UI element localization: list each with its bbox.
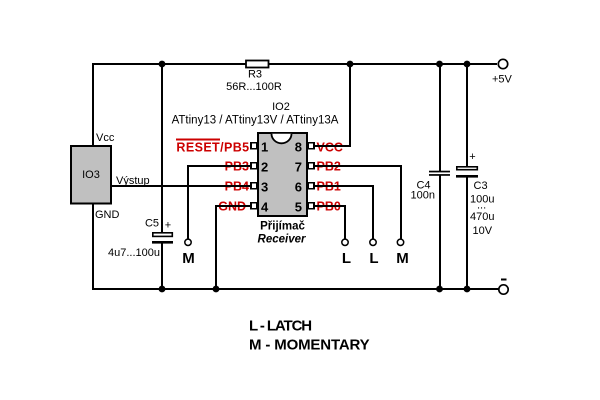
svg-text:5: 5 bbox=[295, 200, 302, 215]
svg-text:4: 4 bbox=[261, 200, 269, 215]
capacitor C5 plates (electrolytic) bbox=[152, 233, 173, 244]
wire: pin 7 PB2 to M button bbox=[315, 166, 402, 239]
svg-text:RESET/PB5: RESET/PB5 bbox=[176, 141, 249, 155]
svg-text:IO2: IO2 bbox=[272, 101, 290, 113]
terminal minus bbox=[499, 279, 508, 295]
svg-text:...: ... bbox=[477, 200, 486, 212]
svg-text:Vcc: Vcc bbox=[96, 132, 115, 144]
svg-text:M: M bbox=[396, 250, 409, 267]
button terminal L (pin5) bbox=[342, 239, 351, 267]
svg-text:8: 8 bbox=[295, 140, 302, 155]
svg-text:Výstup: Výstup bbox=[116, 175, 150, 187]
capacitor C3 plates (electrolytic) bbox=[456, 167, 478, 178]
svg-text:M: M bbox=[182, 250, 195, 267]
svg-text:VCC: VCC bbox=[317, 141, 343, 155]
pin label RESET/PB5 (pin 1) bbox=[176, 140, 250, 155]
wire: M button to pin 2 PB3 bbox=[188, 166, 251, 239]
svg-text:L: L bbox=[342, 250, 351, 267]
IC pin boxes right (pins 8-5) bbox=[308, 143, 314, 209]
wire: C3 branch upper bbox=[466, 63, 468, 167]
svg-text:+: + bbox=[469, 151, 475, 163]
wire: IO3 Vystup to pin 3 PB4 bbox=[111, 185, 251, 187]
wire: C4 branch upper bbox=[439, 63, 441, 171]
wire: pin 4 GND to bottom rail bbox=[216, 206, 251, 290]
wire: C3 branch lower bbox=[466, 177, 468, 290]
svg-text:56R...100R: 56R...100R bbox=[226, 81, 282, 93]
svg-text:L: L bbox=[369, 250, 378, 267]
svg-text:ATtiny13 / ATtiny13V / ATtiny1: ATtiny13 / ATtiny13V / ATtiny13A bbox=[172, 115, 339, 127]
svg-text:1: 1 bbox=[261, 140, 268, 155]
svg-text:M - MOMENTARY: M - MOMENTARY bbox=[249, 336, 370, 353]
wire: C5 branch upper bbox=[161, 63, 163, 232]
capacitor C4 plates bbox=[429, 171, 450, 176]
svg-text:+: + bbox=[165, 220, 171, 232]
wire: pin 5 PB0 to L button bbox=[315, 206, 346, 239]
wire: C5 branch lower bbox=[161, 243, 163, 290]
svg-text:7: 7 bbox=[295, 160, 302, 175]
svg-text:10V: 10V bbox=[473, 225, 493, 237]
wire: pin 8 VCC to top rail bbox=[315, 63, 351, 146]
button terminal M (left) bbox=[182, 239, 195, 267]
svg-text:Přijímač: Přijímač bbox=[260, 221, 305, 233]
svg-text:C3: C3 bbox=[474, 180, 488, 192]
svg-text:GND: GND bbox=[95, 209, 120, 221]
svg-text:R3: R3 bbox=[248, 69, 262, 81]
wire: C4 branch lower bbox=[439, 175, 441, 290]
svg-text:3: 3 bbox=[261, 180, 268, 195]
button terminal L (pin6) bbox=[369, 239, 378, 267]
resistor R3 body bbox=[246, 61, 269, 68]
wire: pin 6 PB1 to L button bbox=[315, 186, 374, 239]
IC pin boxes left (pins 1-4) bbox=[251, 143, 257, 209]
svg-text:470u: 470u bbox=[470, 211, 494, 223]
wire: bottom (minus) rail bbox=[92, 288, 499, 290]
svg-text:C5: C5 bbox=[145, 218, 159, 230]
svg-text:6: 6 bbox=[295, 180, 302, 195]
op-amp/IC body IO2 (ATtiny13) bbox=[258, 133, 307, 216]
svg-text:100n: 100n bbox=[411, 189, 435, 201]
svg-text:IO3: IO3 bbox=[82, 169, 100, 181]
svg-text:+5V: +5V bbox=[492, 74, 513, 86]
wire: +5V top rail bbox=[92, 63, 497, 65]
IO3 receiver module body bbox=[71, 146, 111, 204]
svg-text:Receiver: Receiver bbox=[258, 234, 306, 246]
terminal +5V bbox=[492, 59, 513, 85]
button terminal M (pin7) bbox=[396, 239, 409, 267]
wire: IO3 GND down to bottom rail bbox=[92, 204, 94, 290]
svg-text:4u7...100u: 4u7...100u bbox=[108, 247, 160, 259]
svg-text:L - LATCH: L - LATCH bbox=[249, 318, 311, 335]
wire: left drop from rail to IO3 Vcc bbox=[92, 63, 94, 146]
svg-text:2: 2 bbox=[261, 160, 268, 175]
